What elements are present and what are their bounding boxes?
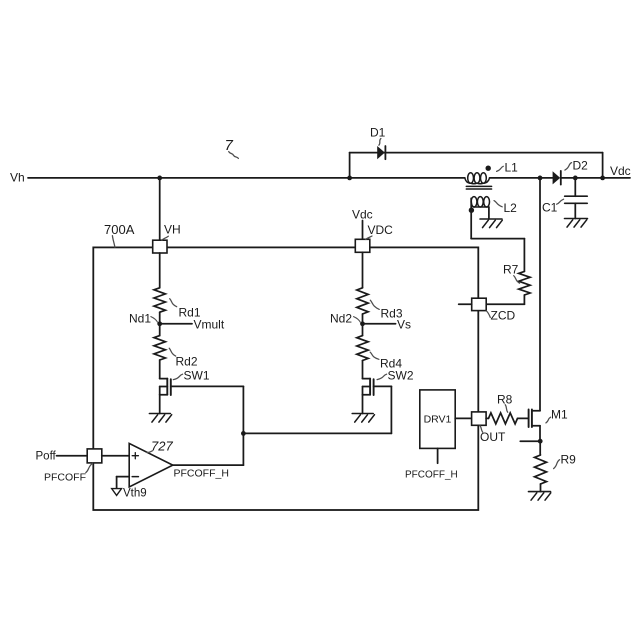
diode D2 — [553, 171, 561, 185]
wire SW1 gate line — [171, 385, 244, 387]
wire Vdc stub to VDC pin — [362, 221, 364, 240]
wire C1 top — [574, 178, 576, 196]
label M1 — [551, 408, 568, 422]
label PFCOFF_H drv — [405, 470, 458, 481]
wire Vs — [363, 323, 396, 325]
wire SW1 source to ground — [159, 395, 161, 414]
transformer core bars — [466, 186, 491, 189]
leader from 700A to block — [112, 236, 115, 248]
wire rail L1 to D2 — [490, 177, 553, 179]
svg-text:Vmult: Vmult — [194, 318, 225, 332]
svg-text:D2: D2 — [573, 159, 589, 173]
wire Rd3 to Nd2 — [362, 314, 364, 324]
resistor Rd2 — [154, 336, 165, 360]
label Vth9 — [123, 488, 147, 500]
wire R7 to ZCD — [486, 295, 524, 304]
label Vmult — [194, 318, 225, 332]
svg-text:SW1: SW1 — [184, 369, 210, 383]
svg-text:L2: L2 — [504, 201, 518, 215]
leader hook 727 — [146, 451, 152, 453]
svg-text:Vdc: Vdc — [352, 208, 373, 222]
op-amp plus sign — [132, 453, 138, 459]
leader Nd2 to dot — [354, 317, 361, 322]
label VH — [164, 223, 181, 237]
wire Rd2 to SW1 drain — [159, 360, 161, 379]
leader to D1 — [379, 139, 381, 146]
wire R8 to M1 gate — [518, 417, 529, 419]
label Nd1 — [129, 312, 151, 326]
svg-text:SW2: SW2 — [388, 369, 414, 383]
terminal box OUT — [472, 412, 487, 425]
wire op-amp output — [173, 464, 244, 466]
node Vdc dot — [600, 176, 605, 181]
leader to L1 — [497, 166, 504, 171]
label D1 — [370, 126, 386, 140]
ZCD inner stub — [459, 303, 472, 305]
leader to R9 — [554, 460, 560, 469]
leader to Rd3 — [370, 300, 379, 309]
label Rd3 — [381, 307, 403, 321]
wire SW2 gate riser — [390, 386, 392, 433]
wire Vth9 riser — [116, 477, 118, 489]
svg-text:OUT: OUT — [480, 430, 506, 444]
label Vdc right — [610, 164, 631, 178]
wire DRV1 input stub — [437, 448, 439, 463]
wire OUT to R8 — [486, 417, 488, 419]
node Nd2 dot — [360, 321, 365, 326]
wire L2 left down — [470, 198, 472, 238]
figure number 7 — [225, 137, 234, 154]
wire PFCOFF_H to SW2 riser — [243, 432, 391, 434]
wire SW2 gate line — [374, 385, 392, 387]
label OUT — [480, 430, 506, 444]
wire D2 cathode to Vdc — [561, 177, 630, 179]
label Poff — [36, 451, 57, 463]
wire pin to op-amp plus input — [102, 455, 129, 457]
wire R9 to ground — [540, 484, 542, 492]
svg-text:L1: L1 — [505, 161, 519, 175]
label Rd2 — [176, 355, 198, 369]
leader Nd1 to dot — [151, 317, 158, 322]
svg-text:Vh: Vh — [10, 171, 25, 185]
label Rd4 — [380, 357, 402, 371]
svg-text:M1: M1 — [551, 408, 568, 422]
label 727 — [151, 439, 173, 454]
resistor R9 — [535, 455, 547, 484]
svg-text:Nd1: Nd1 — [129, 312, 151, 326]
label DRV1 — [424, 414, 452, 426]
wire Nd2 to Rd4 — [362, 324, 364, 336]
wire Rd1 to Nd1 — [159, 312, 161, 324]
wire D1 branch drop right — [602, 153, 604, 178]
leader to SW2 — [377, 374, 387, 379]
node junction dot PFCOFF_H — [241, 431, 246, 436]
leader to L2 — [494, 201, 502, 207]
label R8 — [497, 393, 513, 407]
ground under SW1 — [149, 414, 171, 423]
Vth9 reference arrowhead — [112, 489, 122, 496]
svg-text:Rd2: Rd2 — [176, 355, 198, 369]
resistor Rd3 — [357, 288, 368, 314]
svg-text:PFCOFF_H: PFCOFF_H — [405, 470, 458, 481]
svg-text:D1: D1 — [370, 126, 386, 140]
node junction dot M1 source — [538, 439, 543, 444]
label VDC — [368, 223, 394, 237]
label Vdc above VDC pin — [352, 208, 373, 222]
node junction dot rail/C1 — [573, 176, 578, 181]
op-amp minus sign — [132, 476, 138, 478]
block 700A outline — [93, 247, 478, 510]
op-amp U727 triangle — [129, 443, 173, 487]
svg-text:Vth9: Vth9 — [123, 488, 147, 500]
terminal box ZCD — [472, 298, 487, 310]
label ZCD — [491, 309, 516, 323]
leader to Rd2 — [169, 348, 176, 356]
wire Vmult — [160, 323, 192, 325]
svg-text:R7: R7 — [503, 263, 519, 277]
label D2 — [573, 159, 589, 173]
wire Rd4 to SW2 drain — [362, 361, 364, 379]
node junction dot Vh/VH — [157, 176, 162, 181]
inductor L2 winding — [471, 197, 489, 207]
wire VH pin to Rd1 — [159, 253, 161, 288]
svg-text:PFCOFF: PFCOFF — [44, 472, 86, 484]
svg-text:727: 727 — [151, 439, 173, 454]
label Vs — [397, 318, 411, 332]
leader to VDC box — [366, 236, 372, 239]
capacitor C1 — [565, 196, 588, 203]
leader to R7 — [514, 276, 520, 284]
L2 phase dot — [469, 208, 474, 213]
node Vh label — [10, 171, 25, 185]
wire M1 drain riser — [539, 178, 541, 411]
terminal box VH — [153, 240, 167, 253]
wire SW2 source to ground — [362, 395, 364, 414]
leader to OUT box — [480, 426, 483, 433]
label R7 — [503, 263, 519, 277]
wire C1 bottom — [574, 203, 576, 218]
svg-text:VDC: VDC — [368, 223, 394, 237]
wire Poff to pin box — [57, 455, 88, 457]
leader to M1 — [546, 417, 551, 423]
transistor SW2 — [363, 379, 374, 395]
label Rd1 — [179, 306, 201, 320]
svg-text:VH: VH — [164, 223, 181, 237]
transistor SW1 — [160, 379, 171, 395]
leader to VH box — [162, 236, 169, 240]
wire VDC pin to Rd3 — [362, 252, 364, 287]
ground under C1 — [565, 219, 588, 228]
label L1 — [505, 161, 519, 175]
svg-text:ZCD: ZCD — [491, 309, 516, 323]
leader to R8 — [505, 405, 508, 413]
terminal box VDC — [355, 239, 370, 252]
block DRV1 — [420, 390, 455, 449]
inductor L1 winding — [465, 173, 490, 184]
svg-text:C1: C1 — [542, 201, 558, 215]
svg-text:700A: 700A — [104, 222, 135, 237]
wire down to R7 — [523, 239, 525, 272]
L1 phase dot — [486, 166, 491, 171]
leader PFCOFF to box — [86, 463, 93, 472]
svg-text:Vdc: Vdc — [610, 164, 631, 178]
ground under SW2 — [352, 414, 374, 423]
svg-text:PFCOFF_H: PFCOFF_H — [174, 468, 229, 480]
diode D1 — [377, 146, 385, 159]
wire DRV1 to OUT pin — [455, 417, 471, 419]
node Nd1 dot — [157, 321, 162, 326]
label Nd2 — [330, 312, 352, 326]
node junction dot rail/D1 branch — [347, 176, 352, 181]
wire sense stub — [520, 440, 540, 442]
svg-text:Vs: Vs — [397, 318, 411, 332]
svg-text:R9: R9 — [561, 453, 577, 467]
ground under R9 — [529, 492, 551, 501]
wire L2 horizontal to R7 column — [471, 238, 524, 240]
leader squiggle under 7 — [229, 152, 239, 159]
svg-text:DRV1: DRV1 — [424, 414, 452, 426]
leader to Rd4 — [370, 352, 379, 359]
label L2 — [504, 201, 518, 215]
resistor R7 — [519, 271, 530, 295]
label R9 — [561, 453, 577, 467]
label 700A — [104, 222, 135, 237]
resistor Rd4 — [357, 336, 368, 361]
wire Vh rail left segment — [28, 177, 465, 179]
leader to C1 — [557, 199, 564, 204]
leader to SW1 — [173, 374, 182, 379]
wire D1 branch top horizontal — [350, 152, 603, 154]
wire to R9 — [539, 441, 541, 455]
terminal box Poff/PFCOFF — [87, 449, 102, 463]
resistor R8 — [489, 413, 518, 424]
node junction dot rail/M1 drain — [538, 176, 543, 181]
ground under L2 — [480, 219, 502, 228]
label SW2 — [388, 369, 414, 383]
label PFCOFF — [44, 472, 86, 484]
label PFCOFF_H opamp — [174, 468, 229, 480]
svg-text:Nd2: Nd2 — [330, 312, 352, 326]
wire Vh to VH pin — [159, 178, 161, 240]
transistor M1 — [529, 410, 540, 428]
leader to ZCD box — [486, 311, 490, 318]
wire M1 source down — [539, 426, 541, 442]
svg-text:Poff: Poff — [36, 451, 57, 463]
wire op-amp minus input — [117, 476, 130, 478]
wire Nd1 to Rd2 — [159, 324, 161, 336]
label C1 — [542, 201, 558, 215]
resistor Rd1 — [154, 288, 165, 312]
wire D1 branch riser left — [349, 153, 351, 178]
leader to D2 — [565, 163, 572, 171]
leader to Rd1 — [170, 299, 177, 307]
wire output riser to gates — [242, 386, 244, 465]
wire L2 right end to ground — [488, 207, 490, 219]
label SW1 — [184, 369, 210, 383]
